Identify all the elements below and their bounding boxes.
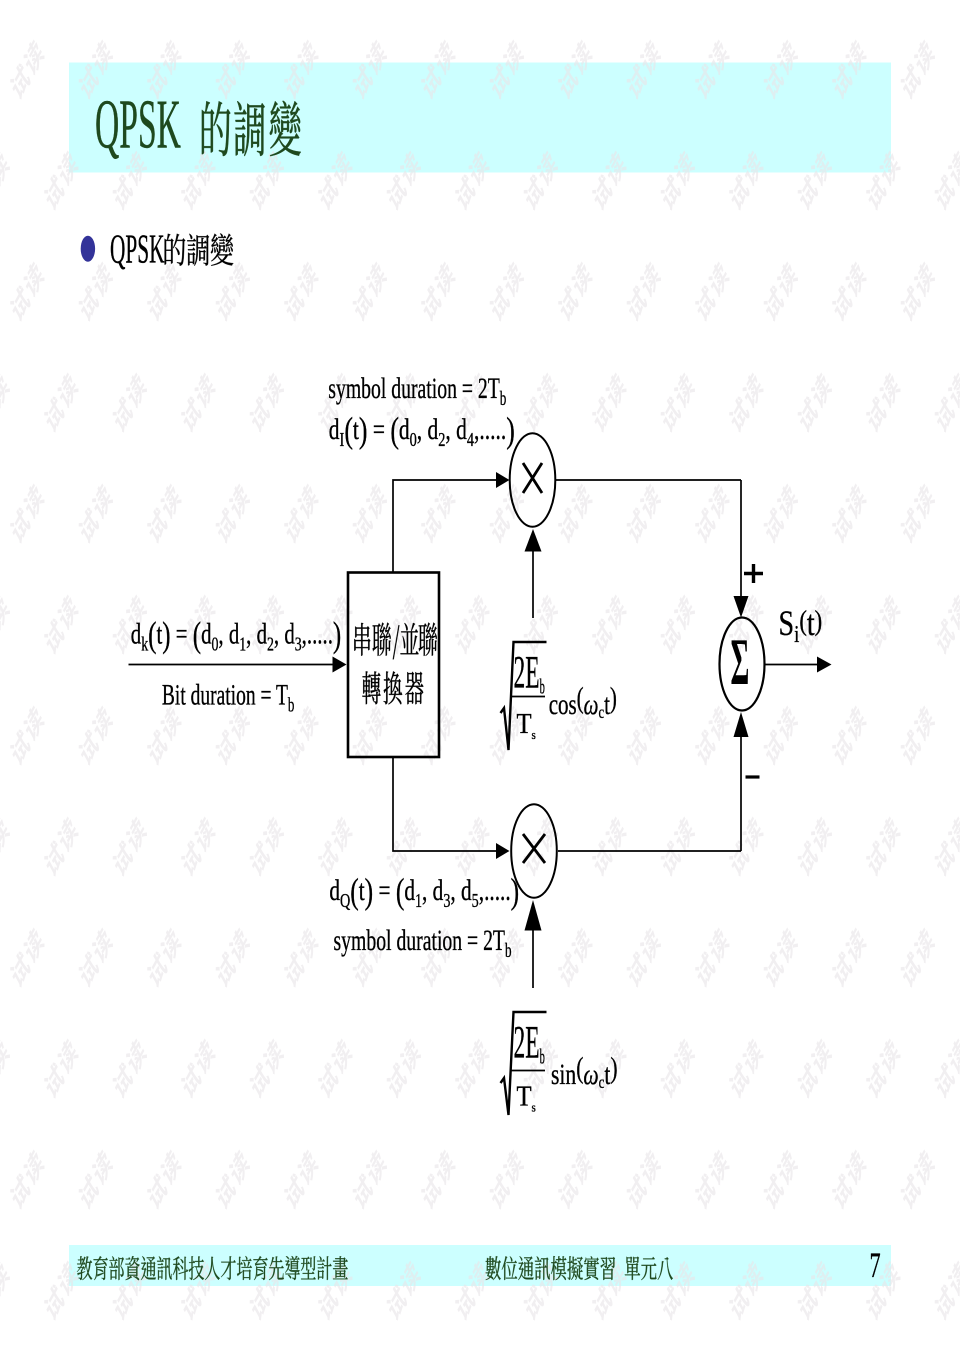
M2 X mark [523,834,545,863]
M1 X mark [523,463,542,493]
svg-text:Σ: Σ [731,626,750,700]
multiplier M2 (lower) [511,804,557,898]
converter box 串聯/並聯轉換器 [348,573,439,758]
wire: output [765,664,819,666]
box label line1 串聯/並聯 [354,623,437,660]
box label line2 轉換器 [362,671,423,704]
arrow into upper multiplier [496,472,510,488]
wire: down to summer [740,480,742,597]
footer banner [69,1245,891,1286]
bullet text CJK 的調變 [165,233,234,265]
header banner [69,63,891,173]
wire: sin carrier up-arrow [532,930,534,988]
footer left 教育部資通訊科技人才培育先導型計畫 [77,1256,348,1280]
wire: box bottom to lower multiplier [393,757,497,851]
multiplier M1 (upper) [510,433,556,527]
svg-text:QPSK: QPSK [110,227,165,272]
wire: input line [129,664,335,666]
svg-text:symbol duration = 2Tb: symbol duration = 2Tb [334,924,512,962]
svg-text:dI(t) = (d0, d2, d4,.....): dI(t) = (d0, d2, d4,.....) [329,410,515,451]
radical sin [501,1012,547,1115]
wire: M2 to summer column [558,850,741,852]
svg-text:symbol duration = 2Tb: symbol duration = 2Tb [328,372,506,410]
footer center 數位通訊模擬實習 單元八 [486,1256,673,1280]
arrow into summer top [734,596,749,618]
wire: box top to upper multiplier [393,480,497,573]
wire: up to summer [740,728,742,851]
svg-text:sin(ωct): sin(ωct) [551,1051,618,1092]
arrow into lower multiplier [496,843,510,859]
minus sign [746,775,760,778]
svg-text:Bit duration = Tb: Bit duration = Tb [162,679,294,717]
slide title CJK 的調變 [202,101,301,156]
plus sign [744,564,763,583]
sin fraction bar [511,1070,545,1072]
svg-text:QPSK: QPSK [95,85,181,163]
radical cos [501,642,547,750]
wire: cos carrier up-arrow [532,550,534,618]
summer ellipse [720,618,765,711]
arrow into summer bottom [734,712,749,737]
svg-text:7: 7 [870,1246,881,1286]
svg-text:dQ(t) = (d1, d3, d5,.....): dQ(t) = (d1, d3, d5,.....) [329,871,519,912]
svg-text:dk(t) = (d0, d1, d2, d3,.....): dk(t) = (d0, d1, d2, d3,.....) [131,614,341,655]
cos fraction bar [511,696,545,698]
arrow output [817,657,832,673]
bullet marker [81,236,95,262]
wire: M1 to summer column [556,479,741,481]
arrow into converter box [333,657,347,673]
